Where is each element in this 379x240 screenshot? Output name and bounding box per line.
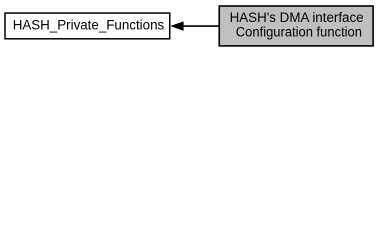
svg-text:HASH_Private_Functions: HASH_Private_Functions [13, 18, 165, 34]
background [0, 0, 379, 52]
svg-text:Configuration function: Configuration function [236, 24, 362, 40]
node HASH's DMA interface Configuration function (gray box) [219, 6, 373, 46]
node HASH_Private_Functions (white box) [5, 13, 170, 39]
wire (dependency edge) [183, 25, 219, 27]
arrowhead pointing left into HASH_Private_Functions [172, 22, 184, 30]
